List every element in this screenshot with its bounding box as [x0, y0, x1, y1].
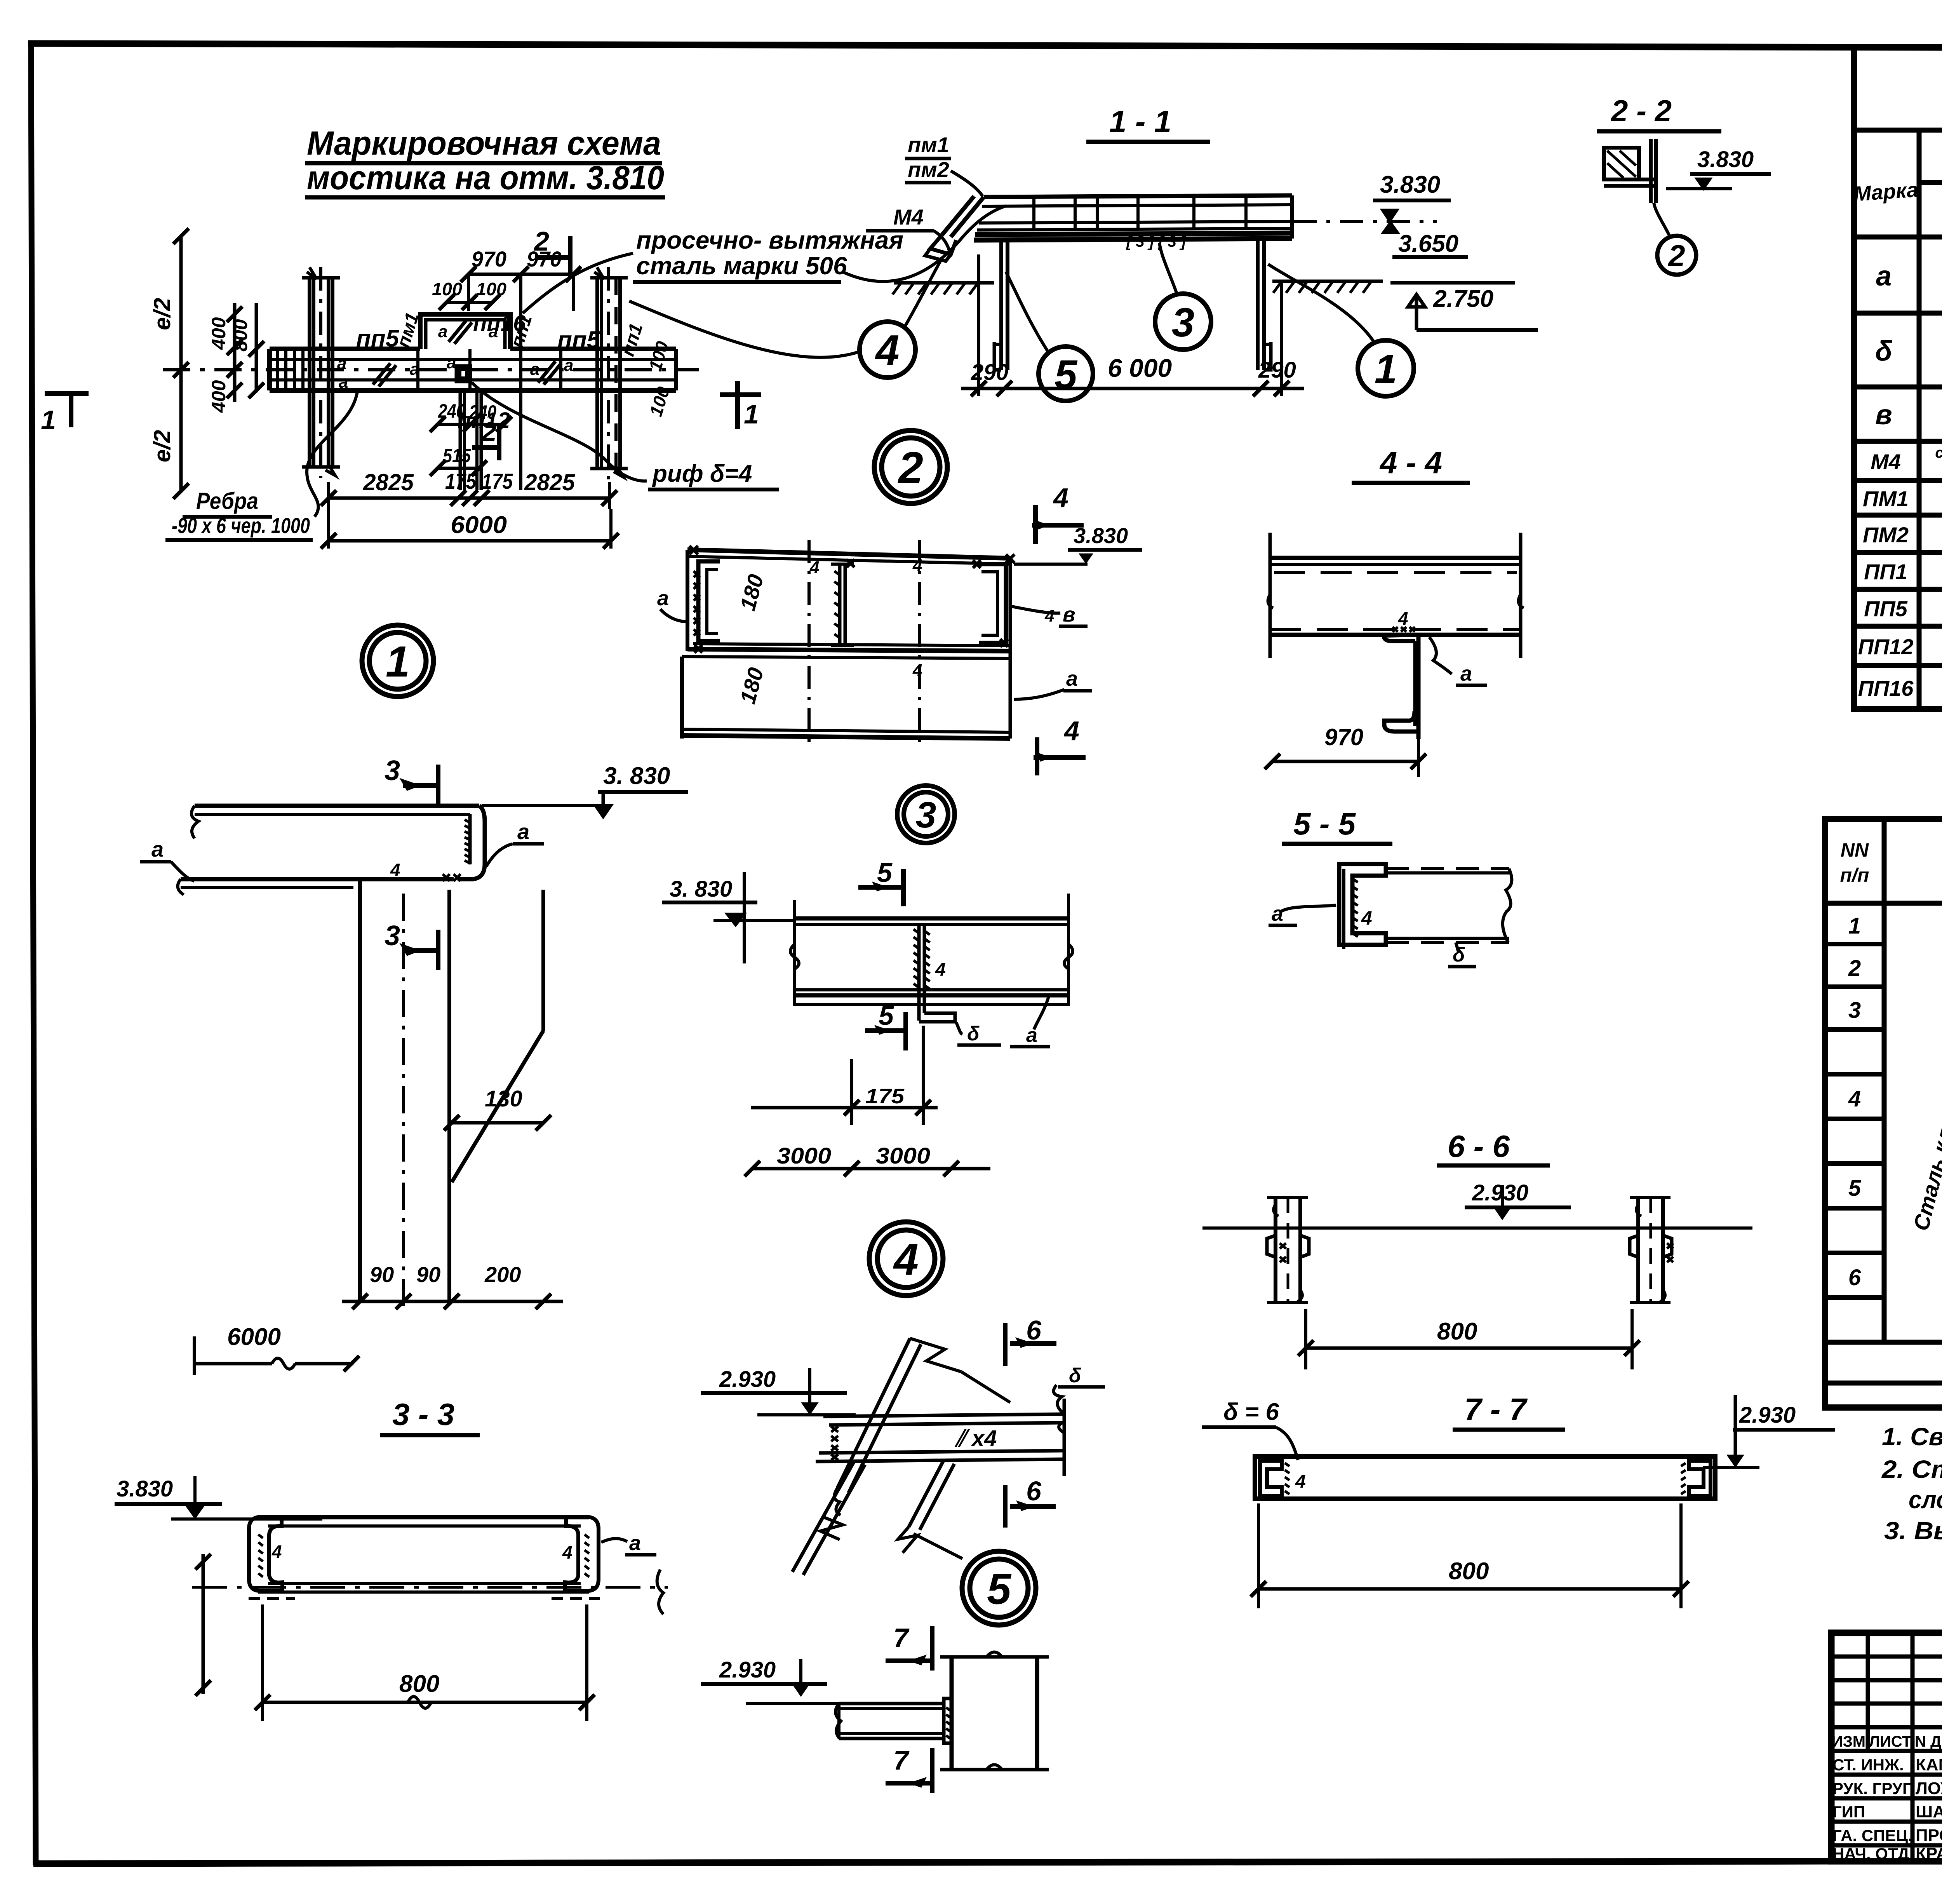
plan dim e/2 vertical — [149, 228, 189, 499]
svg-text:просечно- вытяжная: просечно- вытяжная — [636, 226, 903, 254]
svg-text:175: 175 — [482, 469, 513, 493]
1-1 level 3.830 — [1293, 171, 1451, 221]
svg-text:800: 800 — [1437, 1318, 1477, 1345]
3-3 left channel — [249, 1517, 282, 1591]
svg-text:4: 4 — [809, 558, 819, 577]
4-4 beam — [1270, 558, 1521, 635]
svg-text:4: 4 — [1361, 907, 1372, 929]
svg-text:2825: 2825 — [363, 469, 414, 495]
table row ПМ2 — [1863, 523, 1942, 548]
svg-text:3. 830: 3. 830 — [603, 763, 670, 789]
plan left column I-beam — [302, 267, 340, 478]
svg-text:970: 970 — [527, 247, 562, 271]
plan title — [305, 125, 665, 197]
6-6 level line — [1202, 1226, 1752, 1230]
svg-text:180: 180 — [735, 665, 768, 707]
svg-text:4: 4 — [271, 1542, 282, 1562]
svg-text:3. Высота сварного шва h шв: 3. Высота сварного шва h шва = 6мм . — [1884, 1517, 1942, 1545]
svg-text:а: а — [151, 837, 164, 861]
svg-text:2: 2 — [1667, 239, 1685, 273]
svg-text:3: 3 — [916, 794, 936, 836]
svg-text:5: 5 — [1848, 1176, 1861, 1201]
svg-text:6: 6 — [1848, 1265, 1861, 1290]
svg-text:4: 4 — [1053, 483, 1068, 513]
3-3 feet dashes — [249, 1597, 600, 1600]
svg-text:а: а — [564, 356, 573, 375]
6-6 right I-beam — [1630, 1198, 1673, 1303]
callout circle 4 big (mid) — [869, 1222, 943, 1296]
plan dim 970 970 — [461, 247, 581, 490]
4-4 label а — [1429, 637, 1487, 685]
1-1 labels пм1 пм2 — [905, 132, 983, 196]
title block left grid verticals — [1868, 1633, 1942, 1861]
spec марка стали rotated — [1909, 998, 1942, 1245]
svg-text:2.930: 2.930 — [719, 1657, 776, 1683]
svg-text:а: а — [339, 373, 348, 392]
5-5 dashed beam lines — [1386, 869, 1512, 942]
3-3 serrations — [258, 1535, 589, 1577]
detail2 bottom band — [682, 558, 1010, 739]
1-1 callout circle 1 — [1268, 264, 1414, 396]
7-7 left channel insert — [1260, 1461, 1282, 1496]
svg-text:2.930: 2.930 — [1472, 1180, 1528, 1205]
svg-text:515: 515 — [443, 445, 471, 467]
detail2 label а right — [1014, 667, 1092, 699]
svg-text:4: 4 — [390, 860, 400, 880]
svg-text:1. Сварку производить электр: 1. Сварку производить электродами типа Э… — [1882, 1423, 1942, 1451]
7-7 left serration — [1285, 1463, 1289, 1494]
svg-text:6 000: 6 000 — [1108, 354, 1172, 382]
svg-text:РУК. ГРУП: РУК. ГРУП — [1832, 1779, 1914, 1798]
title block outer — [1831, 1633, 1942, 1861]
plan dim chain 2825 175 175 2825 — [321, 469, 617, 509]
svg-text:4: 4 — [1044, 606, 1054, 625]
plan dim 100 100 — [432, 279, 506, 310]
plan label риф d=4 — [648, 460, 779, 490]
table row ПП16 — [1858, 676, 1942, 702]
svg-text:в: в — [1063, 603, 1075, 626]
svg-text:а: а — [1876, 261, 1892, 292]
svg-text:3.650: 3.650 — [1398, 230, 1458, 257]
node7 serration — [946, 1707, 950, 1739]
svg-text:а: а — [410, 360, 419, 379]
plan dims 400 800 400 rotated — [208, 303, 264, 413]
svg-text:e/2: e/2 — [149, 298, 175, 330]
detail3 section mark 5 top — [858, 857, 903, 906]
svg-text:Маркировочная схема: Маркировочная схема — [307, 125, 661, 162]
table row ПП1 — [1864, 559, 1942, 585]
plan centre stub below — [460, 390, 481, 490]
svg-text:-90 х 6 чер. 1000: -90 х 6 чер. 1000 — [172, 513, 310, 538]
svg-text:слоями краски БТ-177 по ГО: слоями краски БТ-177 по ГОСТ 5631-70.* — [1909, 1486, 1942, 1514]
section 6-6 title — [1437, 1129, 1550, 1165]
section 3-3 title — [380, 1397, 480, 1435]
detail1 label a right — [486, 819, 544, 866]
detail1 column — [360, 879, 543, 1313]
svg-text:100: 100 — [645, 339, 673, 373]
svg-text:NN: NN — [1841, 839, 1869, 861]
1-1 label М4 — [866, 205, 950, 252]
svg-text:а: а — [517, 819, 529, 844]
detail3 labels δ and а — [956, 996, 1050, 1047]
brace diagonal stringer lower left rail — [792, 1462, 865, 1575]
svg-text:ПП16: ПП16 — [1858, 676, 1914, 700]
brace detail level 2.930 — [701, 1367, 856, 1415]
3-3 left dim line — [195, 1554, 211, 1696]
brace detail section mark 6 bottom — [1005, 1476, 1056, 1528]
4-4 weld dots — [1392, 627, 1415, 632]
svg-text:Ребра: Ребра — [196, 488, 258, 514]
spec NN numbers — [1848, 913, 1861, 1290]
node7 column — [940, 1652, 1049, 1770]
7-7 right serration — [1681, 1463, 1686, 1494]
svg-text:90: 90 — [416, 1262, 440, 1287]
plan text просечно-вытяжная сталь марки 506 — [633, 226, 903, 282]
plan dim 240 240 — [430, 400, 512, 432]
svg-text:e/2: e/2 — [149, 430, 175, 462]
title block left grid horizontals — [1831, 1657, 1942, 1845]
svg-text:КАМИНСКИЙ: КАМИНСКИЙ — [1916, 1754, 1942, 1774]
detail3 section mark 5 bottom — [865, 1000, 906, 1050]
svg-text:3: 3 — [1172, 300, 1194, 345]
plan dim 515 — [430, 445, 487, 476]
3-3 dim 800 — [255, 1604, 595, 1721]
node7 horizontal member — [835, 1698, 952, 1743]
3-3 weld labels 4 — [271, 1542, 573, 1563]
svg-text:3.830: 3.830 — [117, 1476, 173, 1502]
plan dim 6000 — [321, 509, 619, 549]
plan detail callout circle 4 — [629, 258, 942, 378]
svg-text:7 - 7: 7 - 7 — [1464, 1392, 1528, 1427]
svg-text:δ: δ — [967, 1023, 980, 1045]
brace weld serrations left end — [831, 1427, 838, 1460]
svg-text:ПП12: ПП12 — [1858, 634, 1914, 659]
4-4 section cut verticals — [1268, 533, 1524, 658]
svg-text:ЛИСТ: ЛИСТ — [1869, 1733, 1911, 1750]
svg-text:а: а — [438, 322, 447, 341]
table row в — [1875, 395, 1942, 432]
6-6 level 2.930 — [1465, 1180, 1571, 1220]
svg-text:δ: δ — [1875, 336, 1893, 367]
6-6 left I-beam — [1267, 1198, 1309, 1303]
svg-text:970: 970 — [1324, 724, 1363, 750]
svg-text:ГИП: ГИП — [1832, 1803, 1865, 1821]
svg-text:а: а — [530, 360, 539, 379]
detail1 weld x marks — [443, 874, 461, 881]
svg-text:3. 830: 3. 830 — [670, 876, 732, 902]
svg-text:5: 5 — [987, 1564, 1012, 1613]
svg-text:[ 3 ] [ 3 ]: [ 3 ] [ 3 ] — [1126, 233, 1187, 250]
svg-text:100: 100 — [432, 279, 462, 299]
svg-text:3: 3 — [385, 920, 400, 951]
table row М4 — [1871, 445, 1942, 477]
svg-text:а: а — [337, 354, 346, 373]
svg-text:мостика на отм. 3.810: мостика на отм. 3.810 — [307, 159, 664, 197]
svg-text:δ: δ — [1453, 944, 1465, 966]
node7 level 2.930 — [701, 1657, 862, 1704]
3-3 band — [258, 1517, 589, 1592]
plan leader from просечно to plate — [523, 253, 633, 313]
7-7 bar — [1255, 1456, 1715, 1499]
detail2 left channel weld marks — [694, 571, 700, 636]
svg-text:180: 180 — [735, 572, 768, 613]
svg-text:М4: М4 — [893, 205, 924, 229]
svg-text:ПМ1: ПМ1 — [1863, 486, 1909, 511]
4-4 hanging channel — [1384, 635, 1418, 739]
section 2-2 title — [1597, 94, 1721, 131]
svg-text:4: 4 — [1295, 1472, 1306, 1492]
detail2 centrelines dash-dot — [809, 540, 919, 750]
svg-text:М4: М4 — [1871, 449, 1901, 474]
svg-text:3.830: 3.830 — [1697, 147, 1754, 172]
detail2 corner x marks — [689, 546, 1015, 653]
brace diagonal stringer lower right rail — [898, 1461, 962, 1559]
detail3 band — [790, 894, 1073, 1006]
svg-text:сталь марки 506: сталь марки 506 — [636, 252, 847, 280]
svg-text:6000: 6000 — [227, 1324, 281, 1350]
svg-text:3.830: 3.830 — [1074, 523, 1128, 548]
svg-text:ЛОУЦКЕР: ЛОУЦКЕР — [1916, 1779, 1942, 1798]
5-5 channel — [1339, 864, 1386, 949]
1-1 left approach slab — [925, 196, 984, 261]
svg-text:4: 4 — [1398, 608, 1408, 629]
svg-text:4: 4 — [935, 960, 946, 980]
detail1 weld serration — [465, 820, 471, 864]
detail2 label а left — [657, 587, 687, 622]
svg-text:а: а — [1272, 902, 1283, 925]
svg-text:риф δ=4: риф δ=4 — [652, 460, 752, 487]
plan label Ребра — [165, 488, 313, 540]
svg-text:2: 2 — [898, 443, 923, 493]
section 7-7 title — [1453, 1392, 1565, 1430]
svg-text:2: 2 — [1848, 956, 1861, 981]
brace diagonal stringer upper — [834, 1338, 1010, 1515]
svg-text:4: 4 — [912, 661, 922, 680]
detail1 level 3.830 — [482, 763, 688, 817]
svg-text:2.930: 2.930 — [719, 1367, 776, 1392]
svg-text:а: а — [447, 353, 456, 372]
plan centre post cap — [457, 366, 470, 381]
svg-text:а: а — [489, 322, 498, 341]
svg-text:СТ. ИНЖ.: СТ. ИНЖ. — [1832, 1756, 1904, 1774]
svg-text:3000: 3000 — [777, 1143, 831, 1169]
2-2 level 3.830 — [1666, 147, 1771, 189]
svg-text:4: 4 — [1848, 1086, 1861, 1111]
1-1 deck — [974, 195, 1292, 250]
table row ПП5 — [1864, 596, 1942, 622]
svg-text:400: 400 — [208, 380, 230, 413]
1-1 ground line right + hatch — [1272, 281, 1383, 293]
svg-text:3.830: 3.830 — [1380, 171, 1440, 198]
svg-text:1: 1 — [1375, 347, 1397, 392]
svg-text:ПП1: ПП1 — [1864, 559, 1907, 584]
1-1 callout circle 5 — [1006, 272, 1093, 401]
table сечений horizontal lines — [1854, 183, 1942, 665]
spec table row lines — [1825, 944, 1942, 1298]
svg-text:6 - 6: 6 - 6 — [1448, 1129, 1510, 1164]
svg-text:НАЧ. ОТД: НАЧ. ОТД — [1832, 1845, 1909, 1863]
svg-text:7: 7 — [893, 1745, 910, 1775]
7-7 label δ=6 — [1202, 1399, 1298, 1460]
detail3 level 3.830 — [662, 872, 795, 963]
svg-text:в: в — [1875, 399, 1892, 430]
svg-text:см. серию 1.459-2: см. серию 1.459-2 — [1935, 445, 1942, 461]
svg-text:5: 5 — [1055, 352, 1078, 397]
detail2 left channel in band — [698, 561, 720, 641]
svg-text:ПМ2: ПМ2 — [1863, 523, 1909, 547]
svg-text:4: 4 — [562, 1542, 573, 1563]
detail3 dim 3000 3000 — [745, 1143, 990, 1176]
detail2 mid stiffener — [831, 564, 854, 646]
svg-text:5: 5 — [877, 857, 893, 888]
table row a — [1876, 260, 1942, 292]
table сечений vertical lines — [1919, 130, 1942, 709]
svg-text:290: 290 — [971, 360, 1009, 385]
svg-text:пп5: пп5 — [557, 327, 601, 354]
3-3 level 3.830 — [115, 1476, 322, 1519]
svg-text:а: а — [629, 1531, 641, 1555]
svg-text:2.930: 2.930 — [1739, 1402, 1796, 1428]
5-5 label а — [1269, 902, 1336, 925]
table сечений outer frame — [1854, 47, 1942, 709]
1-1 callout circle 3 — [1155, 243, 1211, 350]
svg-text:6: 6 — [1026, 1315, 1042, 1345]
3-3 axis line — [192, 1570, 668, 1614]
section 5-5 title — [1282, 807, 1392, 844]
detail1 dim 6000 — [194, 1324, 359, 1375]
svg-text:ИЗМ: ИЗМ — [1832, 1733, 1865, 1750]
svg-text:175: 175 — [445, 469, 477, 493]
plan leader to риф — [472, 383, 647, 481]
svg-text:Сталь класса С3 8/23: Сталь класса С3 8/23 — [1909, 998, 1942, 1233]
1-1 left leg — [994, 240, 1008, 370]
plan walkway band — [163, 349, 699, 390]
svg-text:1: 1 — [1848, 913, 1861, 939]
svg-text:3 - 3: 3 - 3 — [392, 1397, 454, 1432]
table сечений headers — [1853, 143, 1942, 225]
svg-text:3000: 3000 — [876, 1143, 930, 1169]
svg-text:6000: 6000 — [451, 512, 507, 538]
svg-text:δ = 6: δ = 6 — [1223, 1399, 1279, 1425]
7-7 right channel insert — [1689, 1461, 1711, 1496]
node7 section mark 7 top — [886, 1623, 932, 1671]
1-1 ground line left + hatch — [893, 283, 994, 294]
svg-text:а: а — [657, 587, 669, 610]
svg-text:п/п: п/п — [1840, 864, 1869, 886]
6-6 dim 800 — [1298, 1309, 1640, 1369]
plan section mark 1 left — [41, 394, 89, 435]
plan plate ПП16 — [420, 314, 510, 349]
7-7 level 2.930 right — [1703, 1395, 1835, 1467]
svg-text:175: 175 — [865, 1085, 905, 1108]
svg-text:ПП5: ПП5 — [1864, 596, 1908, 621]
detail2 level 3.830 — [1014, 523, 1142, 564]
1-1 right leg — [1258, 239, 1271, 370]
svg-text:а: а — [1066, 667, 1078, 690]
title block header row labels — [1832, 1733, 1942, 1750]
detail1 label a lower-left — [140, 837, 194, 881]
svg-text:4: 4 — [912, 556, 922, 575]
svg-text:800: 800 — [230, 319, 251, 352]
detail1 section mark 3 bottom — [385, 920, 438, 970]
svg-text:3: 3 — [1848, 998, 1861, 1023]
svg-text:5 - 5: 5 - 5 — [1293, 807, 1356, 841]
svg-text:1: 1 — [744, 399, 759, 429]
svg-text:800: 800 — [399, 1671, 439, 1697]
title block names — [1832, 1754, 1942, 1863]
detail3 stiffener serration — [914, 929, 930, 989]
table row б — [1875, 333, 1942, 367]
svg-text:290: 290 — [1258, 357, 1296, 383]
detail3 mid stiffener — [919, 925, 955, 1022]
detail2 section mark 4 top-right — [1032, 483, 1084, 544]
leader from просечно to 1-1 deck — [843, 206, 1006, 281]
svg-text:КРАСАВИН: КРАСАВИН — [1916, 1844, 1942, 1863]
2-2 drawing — [1604, 139, 1656, 203]
detail1 section mark 3 top — [385, 755, 438, 805]
svg-text:ПРОНИН: ПРОНИН — [1916, 1826, 1942, 1845]
detail callout circle 1 — [362, 625, 433, 697]
svg-text:90: 90 — [370, 1262, 394, 1287]
svg-text:2. Стальные конструкции посл: 2. Стальные конструкции после монтажа ок… — [1881, 1455, 1942, 1483]
svg-text:1: 1 — [41, 405, 56, 435]
svg-text:пм1: пм1 — [908, 132, 949, 157]
svg-text:6: 6 — [1026, 1476, 1042, 1506]
svg-text:δ: δ — [1069, 1364, 1081, 1387]
detail2 mid stiffener serration — [834, 571, 840, 638]
callout circle 5 big — [962, 1551, 1036, 1625]
spec table frame — [1825, 819, 1942, 1408]
detail2 label в right — [1010, 603, 1088, 626]
plan section mark 2 bottom — [472, 416, 499, 460]
detail2 section mark 4 bottom-right — [1034, 716, 1086, 775]
plan hatch marks — [373, 321, 561, 387]
table row ПП12 — [1858, 634, 1942, 660]
2-2 callout circle 2 — [1654, 203, 1696, 275]
detail1 dim 130 — [444, 1086, 551, 1131]
section 4-4 title — [1352, 445, 1470, 483]
5-5 label δ — [1448, 942, 1476, 967]
table row ПМ1 — [1863, 486, 1942, 512]
svg-text:1: 1 — [386, 637, 410, 686]
section 1-1 title — [1086, 104, 1210, 142]
spec header texts — [1840, 827, 1942, 888]
plan section mark 2 top — [533, 226, 570, 277]
plan section mark 1 right — [720, 381, 761, 429]
detail3 dim 175 — [751, 1026, 938, 1125]
brace detail section mark 6 top — [1005, 1315, 1056, 1366]
5-5 serration — [1352, 879, 1358, 937]
plan small a letters — [337, 322, 573, 392]
plan right column I-beam — [590, 267, 628, 479]
svg-text:ГА. СПЕЦ.: ГА. СПЕЦ. — [1832, 1826, 1912, 1845]
detail2 top band — [687, 550, 1010, 651]
svg-text:200: 200 — [484, 1262, 521, 1287]
svg-text:Марка: Марка — [1853, 178, 1919, 206]
svg-text:пп5: пп5 — [356, 325, 400, 352]
svg-text:3: 3 — [385, 755, 400, 786]
svg-text:пм2: пм2 — [908, 157, 949, 182]
svg-text:а: а — [1460, 662, 1472, 685]
brace label δ top right — [1058, 1364, 1105, 1387]
3-3 label а — [601, 1531, 656, 1555]
svg-text:100: 100 — [476, 279, 506, 299]
1-1 level 3.650 — [1383, 222, 1468, 257]
detail1 deck band — [178, 806, 485, 895]
svg-text:1 - 1: 1 - 1 — [1109, 104, 1171, 139]
svg-text:4 - 4: 4 - 4 — [1379, 445, 1442, 480]
svg-text:⫽ х4: ⫽ х4 — [954, 1426, 997, 1451]
